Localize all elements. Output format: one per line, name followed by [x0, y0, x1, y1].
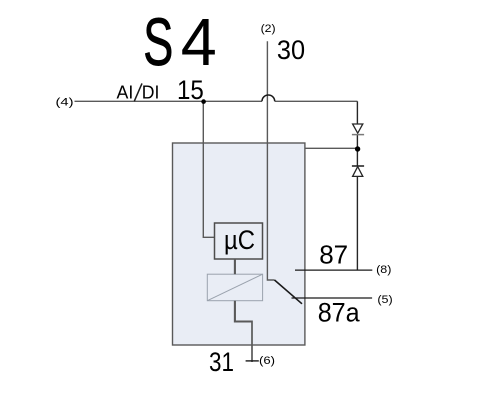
- svg-text:S: S: [143, 6, 173, 80]
- svg-text:(8): (8): [376, 264, 391, 276]
- svg-text:AI: AI: [117, 83, 134, 103]
- svg-text:µC: µC: [224, 225, 255, 255]
- svg-text:87a: 87a: [318, 298, 361, 328]
- svg-text:(2): (2): [261, 23, 276, 35]
- svg-text:87: 87: [319, 239, 348, 269]
- svg-text:4: 4: [181, 6, 217, 80]
- svg-text:31: 31: [209, 347, 234, 377]
- svg-text:(5): (5): [377, 294, 392, 306]
- svg-text:(6): (6): [259, 355, 275, 367]
- svg-text:15: 15: [177, 75, 204, 105]
- svg-text:30: 30: [277, 35, 305, 65]
- svg-text:(4): (4): [56, 97, 74, 109]
- svg-text:DI: DI: [142, 83, 160, 103]
